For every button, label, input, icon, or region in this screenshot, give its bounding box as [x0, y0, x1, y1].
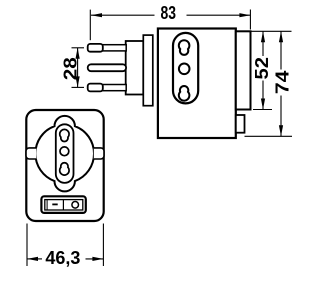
svg-text:74: 74: [272, 71, 292, 95]
svg-text:28: 28: [61, 57, 81, 80]
svg-text:83: 83: [161, 3, 177, 23]
svg-text:46,3: 46,3: [45, 248, 80, 268]
svg-text:52: 52: [252, 57, 272, 80]
